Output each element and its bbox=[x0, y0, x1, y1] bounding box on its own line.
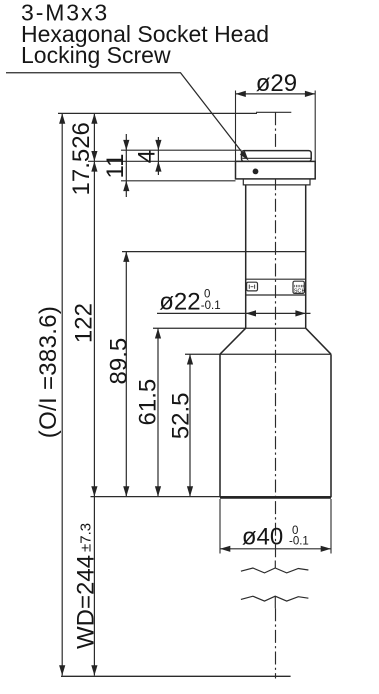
leader line to locking screw bbox=[6, 73, 249, 161]
locking screw dot bbox=[253, 169, 259, 175]
o22 dimension line and arrows bbox=[157, 310, 311, 316]
o29 extension lines bbox=[236, 91, 316, 162]
svg-text:52.5: 52.5 bbox=[168, 392, 195, 439]
main body sides (o40) bbox=[220, 354, 331, 497]
extension line at ring top y150 bbox=[121, 149, 242, 151]
image plane reference line bbox=[58, 112, 257, 114]
dimension 52.5 bbox=[187, 354, 193, 496]
svg-text:(O/I =383.6): (O/I =383.6) bbox=[35, 306, 62, 438]
cap body (o29 head) bbox=[236, 161, 316, 179]
svg-text:ø29: ø29 bbox=[256, 70, 297, 97]
extension line at ring bottom y161 bbox=[88, 160, 242, 162]
O/I dimension line bbox=[59, 113, 65, 675]
chained dimension line 17.526 / 122 / WD bbox=[91, 113, 97, 675]
body bottom edge (thick) bbox=[220, 497, 331, 499]
object plane line at bottom bbox=[61, 675, 291, 677]
dimension 11 bbox=[123, 134, 129, 197]
o29 dimension line and arrows bbox=[236, 91, 316, 97]
o40 extension lines bbox=[220, 499, 331, 554]
body bottom extension line bbox=[91, 496, 332, 498]
svg-text:0: 0 bbox=[204, 289, 210, 301]
dimension 89.5 bbox=[123, 252, 129, 497]
o22 dimension text bbox=[159, 289, 220, 316]
dimension 61.5 bbox=[155, 328, 161, 496]
svg-text:ø22: ø22 bbox=[159, 289, 200, 316]
o40 dimension text bbox=[242, 523, 309, 550]
svg-text:Locking Screw: Locking Screw bbox=[21, 42, 171, 68]
cone shoulder bbox=[220, 328, 331, 354]
svg-text:-0.1: -0.1 bbox=[201, 300, 221, 312]
svg-text:11: 11 bbox=[102, 154, 129, 179]
svg-text:122: 122 bbox=[71, 303, 98, 343]
body top line with extension to 52.5 bbox=[185, 353, 331, 355]
barrel bottom line with extension to 61.5 bbox=[153, 327, 306, 329]
svg-text:61.5: 61.5 bbox=[135, 379, 162, 426]
axis break squiggle upper bbox=[241, 568, 309, 573]
svg-text:4: 4 bbox=[134, 150, 161, 163]
label box right (SCH logo) bbox=[293, 281, 306, 294]
svg-text:ø40: ø40 bbox=[242, 523, 283, 550]
axis break squiggle lower bbox=[241, 596, 309, 601]
collar step under cap bbox=[243, 179, 310, 185]
svg-text:SCH: SCH bbox=[294, 289, 306, 295]
label band lines bbox=[246, 279, 306, 295]
svg-text:WD=244 ±7.3: WD=244 ±7.3 bbox=[73, 523, 100, 649]
optical axis centerline bbox=[274, 112, 276, 678]
svg-text:-0.1: -0.1 bbox=[289, 535, 309, 547]
knurled focus ring (top pill) bbox=[242, 151, 312, 162]
svg-text:17.526: 17.526 bbox=[68, 122, 95, 195]
note text 3-M3x3 Hexagonal Socket Head Locking Screw bbox=[21, 0, 269, 68]
svg-text:89.5: 89.5 bbox=[106, 338, 133, 385]
dimension 4 bbox=[155, 137, 161, 175]
image plane tick on axis bbox=[256, 111, 291, 113]
label box left bbox=[247, 282, 258, 291]
barrel joint line bbox=[122, 251, 306, 253]
barrel sides (o22) bbox=[246, 185, 306, 328]
extension line at cap bottom y180.8 bbox=[121, 180, 236, 182]
o40 dimension line and arrows bbox=[220, 546, 331, 552]
